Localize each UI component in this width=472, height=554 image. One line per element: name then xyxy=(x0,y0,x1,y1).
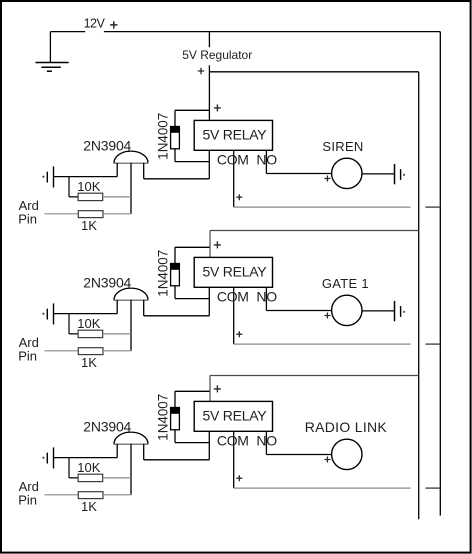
svg-text:5V RELAY: 5V RELAY xyxy=(203,407,268,423)
relay K1 pin COM xyxy=(233,150,235,207)
node COM plus 3 xyxy=(236,475,242,481)
svg-text:10K: 10K xyxy=(77,460,100,475)
wire 5V right rail xyxy=(418,72,420,520)
wire R2b to base xyxy=(103,350,131,352)
node 5V plus xyxy=(198,68,204,74)
resistor R3a 10K xyxy=(78,474,103,481)
wire base-divider branch 3 xyxy=(69,458,78,478)
node relay1 plus xyxy=(214,104,221,111)
svg-text:12V: 12V xyxy=(84,16,106,30)
relay K3 body xyxy=(194,401,272,431)
wire +12V right rail xyxy=(439,32,441,516)
svg-text:1K: 1K xyxy=(81,355,97,370)
wire R3b to base xyxy=(103,494,131,496)
wire COM to +12V rail 2 xyxy=(234,343,411,345)
resistor R1b 1K xyxy=(78,211,103,218)
wire Ard pin input 2 xyxy=(44,350,78,352)
wire NO to load 2 xyxy=(266,310,331,312)
relay K3 pin coil- xyxy=(208,431,210,460)
svg-text:NO: NO xyxy=(256,288,277,304)
node COM plus 1 xyxy=(236,194,242,200)
wire collector Q1 xyxy=(144,178,210,180)
wire 12V rail top xyxy=(50,31,440,33)
svg-text:GATE 1: GATE 1 xyxy=(322,276,369,291)
wire diode D3 top xyxy=(175,391,209,407)
wire 5V feed block 3 xyxy=(210,376,419,402)
return terminal 1 xyxy=(395,164,405,184)
supply terminal block 3 xyxy=(43,447,54,468)
svg-text:1K: 1K xyxy=(81,499,97,514)
wire COM to +12V rail 1 xyxy=(234,206,411,208)
wire base-divider branch 2 xyxy=(69,314,78,334)
wire NO to load 3 xyxy=(266,454,331,456)
wire R1a to base xyxy=(103,196,131,198)
relay K1 pin NO xyxy=(265,150,267,173)
svg-text:COM: COM xyxy=(217,151,249,167)
transistor Q3 2N3904 xyxy=(114,432,149,495)
wire 5V rail horizontal xyxy=(209,71,418,73)
node load plus 1 xyxy=(324,176,330,182)
svg-text:COM: COM xyxy=(217,432,249,448)
svg-text:2N3904: 2N3904 xyxy=(83,274,131,290)
wire R2a to base xyxy=(103,333,131,335)
svg-text:1N4007: 1N4007 xyxy=(155,394,170,441)
relay K2 pin coil- xyxy=(208,287,210,316)
transistor Q1 2N3904 xyxy=(114,151,149,214)
wire Ard pin input 1 xyxy=(44,213,78,215)
svg-text:5V RELAY: 5V RELAY xyxy=(203,126,268,142)
relay K2 pin COM xyxy=(233,287,235,344)
wire R1b to base xyxy=(103,213,131,215)
node relay3 plus xyxy=(214,385,221,392)
wire NO to load 1 xyxy=(266,173,331,175)
svg-text:10K: 10K xyxy=(77,316,100,331)
ground xyxy=(36,32,69,72)
svg-text:Pin: Pin xyxy=(18,349,37,364)
wire diode D3 bottom xyxy=(175,430,209,443)
load GATE 1 circle xyxy=(332,295,362,325)
relay K1 body xyxy=(194,120,272,150)
relay K1 pin coil- xyxy=(208,150,210,179)
wire R3a to base xyxy=(103,477,131,479)
resistor R3b 1K xyxy=(78,492,103,499)
svg-text:Ard: Ard xyxy=(19,479,39,494)
svg-text:COM: COM xyxy=(217,288,249,304)
supply terminal block 2 xyxy=(43,303,54,324)
wire base-divider branch 1 xyxy=(69,177,78,197)
svg-text:2N3904: 2N3904 xyxy=(83,418,131,434)
diode D3 1N4007 xyxy=(170,407,180,430)
svg-text:Ard: Ard xyxy=(19,335,39,350)
relay K3 pin COM xyxy=(233,431,235,488)
svg-text:Pin: Pin xyxy=(18,212,37,227)
node relay2 plus xyxy=(214,241,221,248)
node load plus 2 xyxy=(324,313,330,319)
wire collector Q3 xyxy=(144,459,210,461)
wire diode D1 top xyxy=(175,110,209,126)
wire 5V feed block 2 xyxy=(210,231,419,258)
load RADIO LINK circle xyxy=(332,439,362,469)
wire emitter Q1 xyxy=(54,176,118,178)
diode D2 1N4007 xyxy=(170,263,180,286)
svg-text:1K: 1K xyxy=(81,218,97,233)
svg-text:Pin: Pin xyxy=(18,493,37,508)
wire diode D2 top xyxy=(175,247,209,263)
svg-text:10K: 10K xyxy=(77,179,100,194)
supply terminal block 1 xyxy=(43,166,54,187)
relay K3 pin NO xyxy=(265,431,267,454)
svg-text:5V Regulator: 5V Regulator xyxy=(182,48,252,62)
svg-text:1N4007: 1N4007 xyxy=(155,113,170,160)
svg-text:5V RELAY: 5V RELAY xyxy=(203,263,268,279)
resistor R1a 10K xyxy=(78,193,103,200)
relay K2 pin NO xyxy=(265,287,267,310)
svg-text:Ard: Ard xyxy=(19,198,39,213)
node COM plus 2 xyxy=(236,331,242,337)
svg-text:RADIO LINK: RADIO LINK xyxy=(305,419,388,435)
svg-text:1N4007: 1N4007 xyxy=(155,250,170,297)
node load plus 3 xyxy=(324,457,330,463)
relay K2 body xyxy=(194,257,272,287)
return terminal 2 xyxy=(395,301,405,321)
wire emitter Q3 xyxy=(54,457,118,459)
svg-text:NO: NO xyxy=(256,151,277,167)
svg-text:SIREN: SIREN xyxy=(322,139,363,154)
wire diode D2 bottom xyxy=(175,286,209,299)
svg-text:2N3904: 2N3904 xyxy=(83,137,131,153)
resistor R2b 1K xyxy=(78,348,103,355)
wire COM to +12V rail 3 xyxy=(234,487,411,489)
node 12V plus xyxy=(110,21,117,28)
wire collector Q2 xyxy=(144,315,210,317)
wire emitter Q2 xyxy=(54,313,118,315)
wire load 1 return xyxy=(362,173,395,175)
wire diode D1 bottom xyxy=(175,149,209,162)
wire regulator feed vertical xyxy=(208,32,210,121)
diode D1 1N4007 xyxy=(170,126,180,149)
load SIREN circle xyxy=(332,158,362,188)
resistor R2a 10K xyxy=(78,330,103,337)
wire load 2 return xyxy=(362,310,395,312)
transistor Q2 2N3904 xyxy=(114,288,149,351)
wire Ard pin input 3 xyxy=(44,494,78,496)
svg-text:NO: NO xyxy=(256,432,277,448)
